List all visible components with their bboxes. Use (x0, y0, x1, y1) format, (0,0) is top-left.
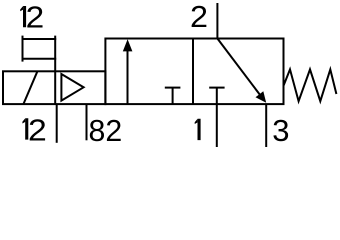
svg-text:3: 3 (272, 113, 289, 148)
svg-text:2: 2 (28, 112, 47, 147)
svg-text:2: 2 (190, 0, 208, 34)
svg-text:2: 2 (26, 0, 45, 35)
svg-text:82: 82 (89, 113, 123, 148)
